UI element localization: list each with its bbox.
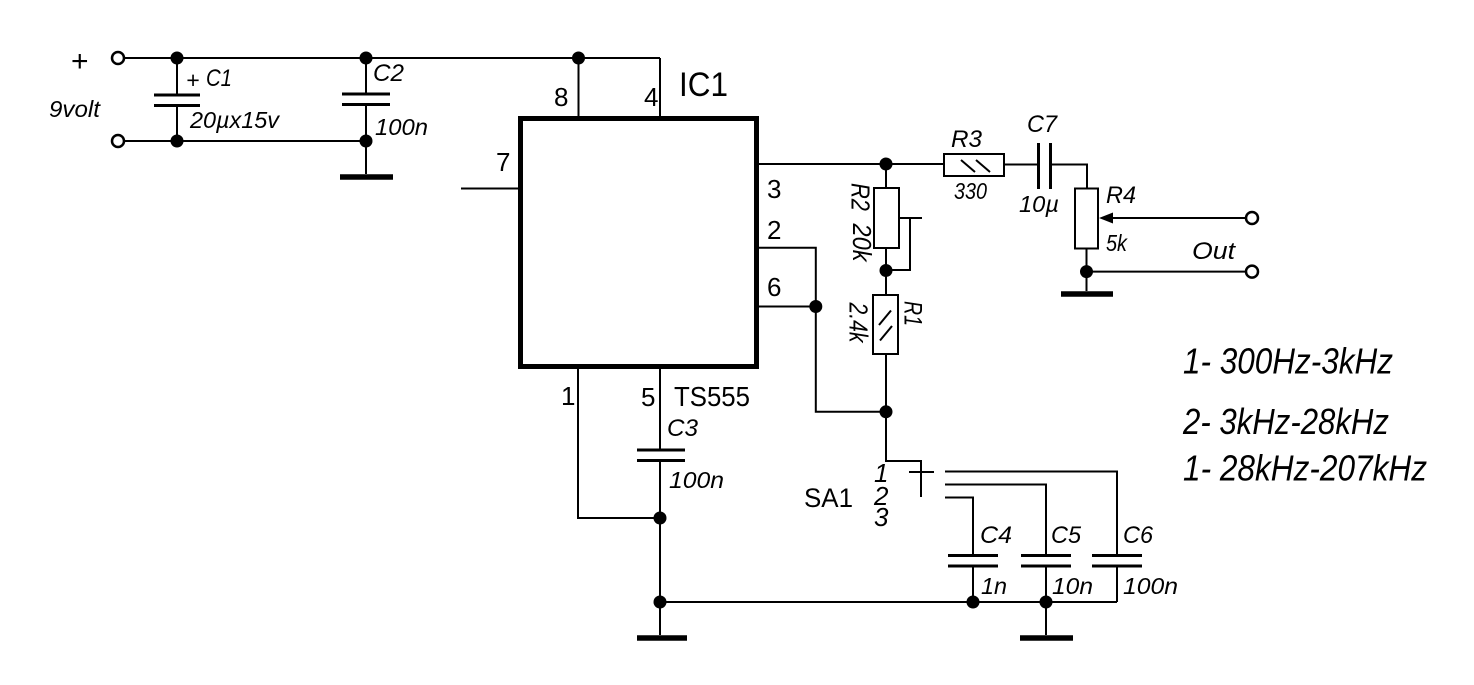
svg-text:R4: R4 xyxy=(1106,182,1136,209)
junction dot R4 bottom xyxy=(1080,265,1093,278)
svg-text:C2: C2 xyxy=(373,60,404,87)
resistor R2 (trimmer 20k) xyxy=(874,164,922,271)
note frequency range line 2 xyxy=(1182,401,1389,442)
svg-text:100n: 100n xyxy=(1123,573,1178,599)
R4 value label xyxy=(1106,230,1128,256)
C3 ref label xyxy=(667,415,699,442)
pin 2 label xyxy=(767,215,781,245)
svg-text:100n: 100n xyxy=(375,114,428,140)
svg-text:5k: 5k xyxy=(1106,230,1128,256)
svg-text:10µ: 10µ xyxy=(1019,191,1059,217)
junction dot C2 top xyxy=(360,52,373,65)
C1 ref label xyxy=(206,65,232,92)
svg-text:C5: C5 xyxy=(1051,522,1082,549)
svg-text:R2: R2 xyxy=(846,183,876,211)
svg-text:20k: 20k xyxy=(847,223,877,264)
junction dot C3 bottom rail xyxy=(654,596,667,609)
SA1 position 2 label xyxy=(873,481,889,511)
wire SA1 throw 1 to C6 xyxy=(945,472,1117,556)
IC1 ref label xyxy=(679,66,728,104)
terminal 0V bottom xyxy=(112,135,124,147)
capacitor C5 xyxy=(1021,556,1071,603)
pin 1 label xyxy=(561,381,575,411)
wire pin 5 xyxy=(659,369,661,449)
C2 ref label xyxy=(373,60,404,87)
terminal Out bottom xyxy=(1246,266,1258,278)
junction dot pin1/C3 xyxy=(654,512,667,525)
svg-text:Out: Out xyxy=(1192,238,1236,265)
node plus terminal label xyxy=(71,45,89,78)
wire pin 6 xyxy=(759,306,816,308)
svg-text:4: 4 xyxy=(644,82,658,112)
svg-text:IC1: IC1 xyxy=(679,66,728,104)
junction dot pin6 xyxy=(809,300,822,313)
svg-text:10n: 10n xyxy=(1052,573,1093,599)
capacitor C3 xyxy=(637,450,685,602)
wire pin 3 xyxy=(759,163,944,165)
pin 3 label xyxy=(767,174,781,204)
junction dot R1 bottom / pin2 node xyxy=(880,405,893,418)
R2 value label xyxy=(847,223,877,264)
wire bottom battery rail xyxy=(125,140,367,142)
junction dot C4 bottom xyxy=(967,596,980,609)
C4 value label xyxy=(981,573,1007,599)
C7 ref label xyxy=(1027,111,1059,138)
svg-text:2: 2 xyxy=(767,215,781,245)
capacitor C6 xyxy=(1092,556,1142,603)
svg-text:7: 7 xyxy=(496,147,510,177)
svg-text:8: 8 xyxy=(554,82,568,112)
C6 ref label xyxy=(1123,522,1154,549)
junction dot C1 bottom xyxy=(171,135,184,148)
wire out bottom xyxy=(1087,271,1247,273)
terminal +9V top xyxy=(112,52,124,64)
svg-text:1: 1 xyxy=(561,381,575,411)
SA1 position 3 label xyxy=(874,502,889,532)
resistor R3 330 xyxy=(944,154,1038,176)
pin 6 label xyxy=(767,272,781,302)
note frequency range line 3 xyxy=(1183,448,1427,489)
wire pin 1 xyxy=(578,369,660,518)
svg-text:1n: 1n xyxy=(981,573,1007,599)
Out label xyxy=(1192,238,1236,265)
C6 value label xyxy=(1123,573,1178,599)
pin 4 label xyxy=(644,82,658,112)
svg-text:C1: C1 xyxy=(206,65,232,92)
C7 value label xyxy=(1019,191,1059,217)
junction dot C2 bottom xyxy=(360,135,373,148)
pin 5 label xyxy=(641,382,655,412)
R1 ref label xyxy=(899,301,927,326)
svg-text:+: + xyxy=(186,67,199,93)
C5 value label xyxy=(1052,573,1093,599)
C5 ref label xyxy=(1051,522,1082,549)
IC1 type label TS555 xyxy=(674,381,750,412)
ground under C5 xyxy=(1020,602,1073,638)
svg-text:6: 6 xyxy=(767,272,781,302)
svg-text:SA1: SA1 xyxy=(804,483,853,513)
potentiometer R4 5k xyxy=(1075,189,1246,272)
R3 value label xyxy=(954,178,987,204)
wire top supply rail xyxy=(125,57,661,59)
ground under C2 xyxy=(340,174,393,180)
svg-text:2- 3kHz-28kHz: 2- 3kHz-28kHz xyxy=(1182,401,1389,442)
C2 value label xyxy=(375,114,428,140)
C1 value label xyxy=(189,107,281,133)
svg-text:3: 3 xyxy=(874,502,889,532)
capacitor C2 xyxy=(342,58,390,174)
capacitor C4 xyxy=(948,556,998,603)
svg-text:20µx15v: 20µx15v xyxy=(189,107,281,133)
svg-text:100n: 100n xyxy=(669,467,724,493)
svg-text:330: 330 xyxy=(954,178,987,204)
wire bottom ground rail xyxy=(660,601,1117,603)
capacitor C1 xyxy=(154,58,200,141)
junction dot pin3/R2 xyxy=(880,158,893,171)
switch SA1 pole xyxy=(886,412,934,497)
SA1 position 1 label xyxy=(874,458,888,488)
svg-text:+: + xyxy=(71,45,89,78)
svg-text:C3: C3 xyxy=(667,415,699,442)
svg-text:TS555: TS555 xyxy=(674,381,750,412)
SA1 label xyxy=(804,483,853,513)
C3 value label xyxy=(669,467,724,493)
wire SA1 throw 3 to C4 xyxy=(945,498,973,556)
svg-text:C4: C4 xyxy=(980,522,1012,549)
wire pin 2 xyxy=(759,248,886,412)
capacitor C7 xyxy=(1039,143,1088,189)
R3 ref label xyxy=(951,126,983,153)
junction dot C5 bottom xyxy=(1040,596,1053,609)
resistor R1 2.4k xyxy=(873,271,898,412)
svg-text:1- 28kHz-207kHz: 1- 28kHz-207kHz xyxy=(1183,448,1427,489)
terminal Out top xyxy=(1246,212,1258,224)
svg-text:R1: R1 xyxy=(899,301,927,326)
svg-text:3: 3 xyxy=(767,174,781,204)
ground under C3 xyxy=(637,602,687,638)
svg-text:9volt: 9volt xyxy=(49,96,102,122)
svg-text:C7: C7 xyxy=(1027,111,1059,138)
svg-text:1- 300Hz-3kHz: 1- 300Hz-3kHz xyxy=(1183,341,1393,382)
node 9volt label xyxy=(49,96,102,122)
wire SA1 throw 2 to C5 xyxy=(945,485,1046,556)
svg-text:C6: C6 xyxy=(1123,522,1154,549)
pin 7 label xyxy=(496,147,510,177)
junction dot C1 top xyxy=(171,52,184,65)
wire pin 8 xyxy=(578,58,580,117)
pin 8 label xyxy=(554,82,568,112)
wire pin 7 stub xyxy=(461,188,518,190)
R4 ref label xyxy=(1106,182,1136,209)
svg-text:5: 5 xyxy=(641,382,655,412)
svg-text:2.4k: 2.4k xyxy=(844,302,874,344)
ground under R4 xyxy=(1061,272,1113,294)
junction dot R2 bottom xyxy=(880,264,893,277)
R1 value label xyxy=(844,302,874,344)
note frequency range line 1 xyxy=(1183,341,1393,382)
svg-text:R3: R3 xyxy=(951,126,983,153)
op-amp IC1 box xyxy=(521,119,757,367)
R2 ref label xyxy=(846,183,876,211)
junction dot pin8 top xyxy=(572,52,585,65)
wire pin 4 xyxy=(659,58,661,117)
C4 ref label xyxy=(980,522,1012,549)
C1 plus label xyxy=(186,67,199,93)
